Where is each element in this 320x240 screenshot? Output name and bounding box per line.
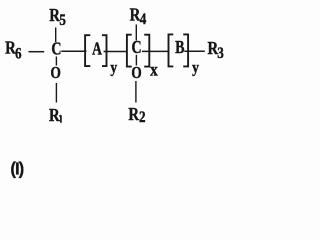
svg-text:2: 2 — [139, 109, 146, 126]
svg-text:C: C — [51, 40, 61, 59]
svg-text:x: x — [150, 60, 158, 80]
svg-text:R: R — [49, 105, 61, 126]
svg-text:B: B — [175, 39, 185, 58]
svg-text:O: O — [131, 64, 141, 83]
svg-text:C: C — [132, 39, 142, 58]
svg-text:(I): (I) — [10, 158, 23, 178]
svg-text:5: 5 — [59, 12, 66, 29]
svg-text:y: y — [110, 60, 117, 77]
svg-text:3: 3 — [217, 45, 224, 62]
svg-text:4: 4 — [140, 11, 147, 28]
svg-text:A: A — [92, 40, 102, 59]
svg-text:O: O — [51, 64, 61, 83]
svg-text:y: y — [192, 59, 199, 76]
svg-text:6: 6 — [15, 45, 22, 62]
